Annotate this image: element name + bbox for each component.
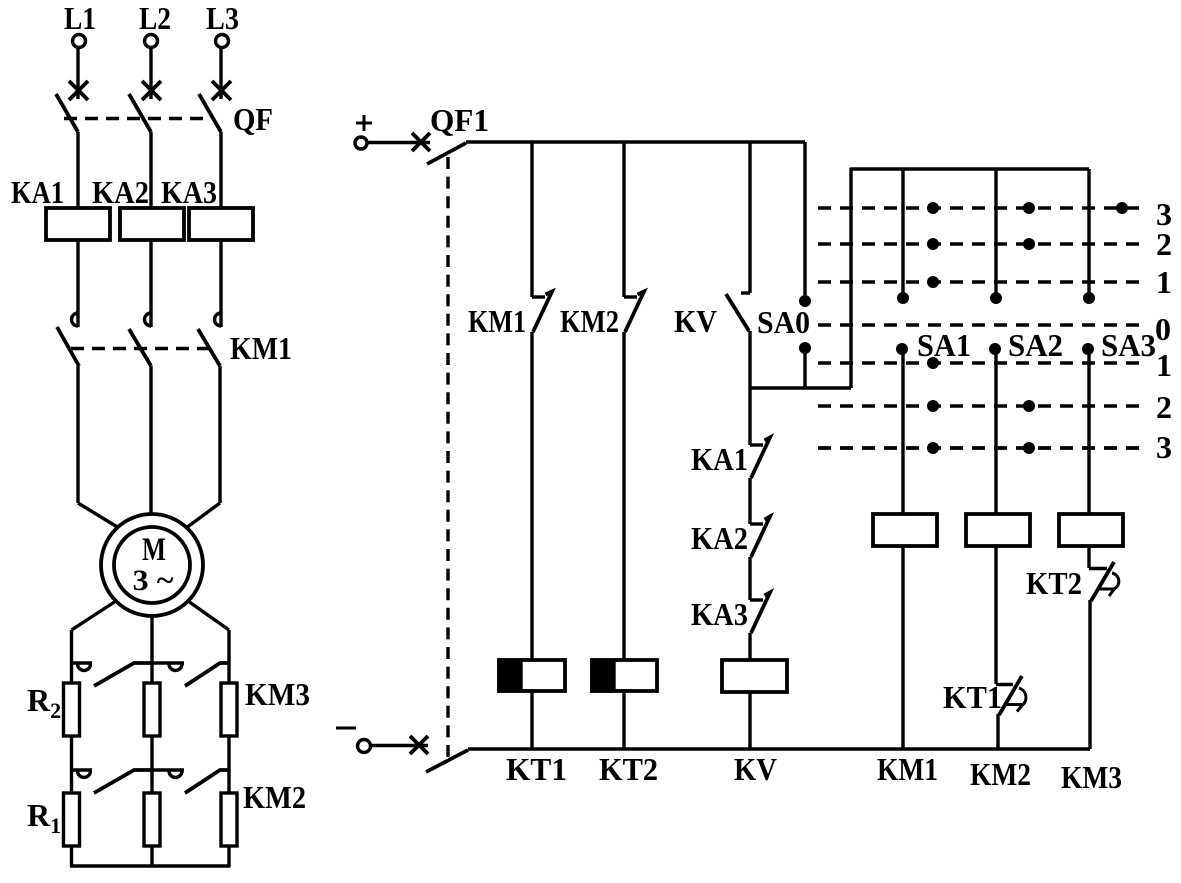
wire KA1 to KM1 contact (76, 240, 79, 327)
contact KM1 label (230, 330, 292, 366)
node L3 label (206, 0, 239, 36)
contact KA3 NC seat (750, 598, 763, 601)
contact KT2 NC seat (1089, 567, 1107, 570)
svg-text:KM3: KM3 (245, 676, 310, 712)
relay coil KA2 label (92, 174, 149, 210)
coil KT2 label (599, 751, 658, 787)
terminal plus (355, 137, 367, 149)
wire SA bus riser (849, 168, 852, 389)
svg-text:2: 2 (1156, 389, 1172, 425)
selector row 3 lower dashed (818, 446, 1140, 450)
selector row 0 dashed (818, 323, 1140, 326)
svg-text:0: 0 (1155, 311, 1171, 347)
contact KM3 b fixed hook (153, 663, 185, 671)
resistor R1 phase b (144, 793, 160, 846)
contact KM3 a fixed hook (72, 663, 93, 671)
contact KM2 a fixed hook (72, 770, 93, 778)
wire KT1 coil to bus (530, 691, 533, 749)
contact KM2 NC seat (624, 295, 637, 298)
svg-text:SA1: SA1 (917, 327, 971, 363)
coil KV (722, 660, 787, 692)
contact KM3 label (245, 676, 310, 712)
svg-text:KA3: KA3 (691, 596, 748, 632)
breaker cross L3 (212, 81, 231, 100)
wire R2a to R1a (70, 736, 73, 793)
breaker cross L1 (69, 81, 88, 100)
breaker QF linkage dashed (64, 117, 210, 120)
contact KM2 a blade (94, 770, 153, 793)
wire R1c to bus (227, 846, 230, 866)
wire L2 drop (149, 48, 152, 99)
wire KM2 branch upper (622, 142, 625, 297)
switch SA1 upper wire (901, 169, 904, 293)
contact KM1 NC seat (532, 295, 545, 298)
switch SA3 lower dot (1082, 343, 1094, 355)
coil KM2 (966, 514, 1030, 546)
wire R2b to R1b (150, 736, 153, 793)
svg-text:KA1: KA1 (11, 174, 64, 210)
wire L2 to KA2 (149, 132, 152, 208)
contact KM1 linkage dashed (71, 347, 210, 350)
resistor R2 phase c (221, 683, 237, 736)
svg-text:KT1: KT1 (943, 679, 1002, 715)
contact KM2 b fixed hook (153, 770, 185, 778)
node row label 1 lower (1156, 347, 1172, 383)
selector row 2 upper dashed (818, 242, 1140, 245)
node row label 2 lower (1156, 389, 1172, 425)
switch SA1 lower dot (896, 343, 908, 355)
wire KA2 to KM1 contact (149, 240, 152, 327)
wire L3 drop (219, 48, 222, 99)
breaker cross L2 (142, 81, 161, 100)
svg-text:QF: QF (233, 101, 273, 137)
wire rotor lead mid (150, 616, 153, 683)
wire rotor lead right (188, 601, 229, 630)
motor 3~ label (133, 564, 174, 597)
wire motor lead left (78, 503, 119, 528)
switch SA3 contact dot (1116, 202, 1128, 214)
terminal L1 (73, 35, 86, 48)
breaker QF pole 2 blade (129, 94, 151, 132)
node L2 label (139, 0, 171, 36)
switch SA0 lower wire (803, 348, 806, 388)
wire bottom rail (468, 747, 1090, 750)
svg-text:SA3: SA3 (1101, 327, 1156, 363)
wire L3 to KA3 (219, 132, 222, 208)
svg-text:R1: R1 (27, 797, 61, 838)
svg-text:KT2: KT2 (599, 751, 658, 787)
contact KM1 pole1 blade (57, 327, 79, 366)
breaker QF1 linkage dashed (446, 157, 449, 757)
wire KM1 branch to KT1 coil (530, 332, 533, 660)
svg-text:3 ~: 3 ~ (133, 564, 174, 597)
wire SA1 to KM1 coil (901, 349, 904, 514)
svg-text:L1: L1 (64, 0, 96, 36)
svg-text:KT1: KT1 (506, 751, 567, 787)
wire L1 drop (76, 48, 79, 99)
contact KM1 pole1 fixed hook (72, 313, 79, 326)
resistor R2 phase b (144, 683, 160, 736)
breaker QF label (233, 101, 273, 137)
wire KT2 contact to bus (1088, 600, 1091, 749)
svg-text:R2: R2 (27, 682, 61, 723)
svg-text:3: 3 (1156, 429, 1172, 465)
contact KA1 NC seat (750, 443, 763, 446)
breaker cross QF1 bottom (410, 736, 428, 754)
switch SA2 upper dot (990, 292, 1002, 304)
motor M inner circle (114, 527, 190, 603)
relay coil KA1 (46, 208, 110, 240)
wire L1 to KA1 (76, 132, 79, 208)
switch SA2 label (1008, 327, 1063, 363)
relay coil KA3 (189, 208, 253, 240)
switch SA0 label (757, 304, 810, 340)
resistor R1 phase c (221, 793, 237, 846)
motor M outer circle (101, 514, 203, 616)
node row label 3 lower (1156, 429, 1172, 465)
relay coil KA3 label (161, 174, 217, 210)
node row label 1 upper (1156, 264, 1172, 300)
wire KM2 coil to KT1 contact (994, 546, 997, 684)
contact KM1 pole3 fixed hook (215, 313, 222, 326)
svg-text:KV: KV (674, 303, 717, 339)
terminal minus (358, 740, 371, 753)
coil KM1 (873, 514, 937, 546)
node row label 2 upper (1156, 226, 1172, 262)
contact KT1 NC seat (996, 683, 1013, 686)
svg-text:M: M (142, 532, 166, 568)
contact KV label (674, 303, 717, 339)
coil KT2 black segment (592, 660, 614, 691)
contact KM1 pole3 blade (198, 329, 220, 366)
wire SA top bus (851, 167, 1089, 170)
wire R2c to R1c (227, 736, 230, 793)
coil KM1 label (877, 751, 938, 787)
contact KA2 label (691, 520, 748, 556)
contact KV blade (726, 294, 749, 331)
contact KT2 delay cup (1098, 573, 1119, 596)
wire plus to QF1 (367, 141, 430, 144)
selector row 2 lower dashed (818, 404, 1140, 407)
svg-text:KM1: KM1 (468, 303, 526, 339)
switch SA0 upper dot (799, 295, 811, 307)
motor M label (142, 532, 166, 568)
svg-text:KV: KV (734, 751, 777, 787)
coil KT1 (499, 660, 565, 691)
contact KT2 NC blade (1091, 562, 1114, 601)
svg-text:KM1: KM1 (230, 330, 292, 366)
wire KT1 contact to bus (996, 714, 999, 749)
wire KA2 to KA3 (748, 557, 751, 600)
switch SA0 upper wire (803, 142, 806, 295)
switch SA2 lower dot (989, 343, 1001, 355)
breaker QF1 label (430, 102, 489, 138)
wire R1b to bus (150, 846, 153, 866)
selector row 3 upper dashed (818, 206, 1140, 209)
coil KM3 (1059, 514, 1123, 546)
contact KA3 NC blade (751, 593, 770, 634)
relay coil KA2 (120, 208, 184, 240)
selector row 1 upper dashed (818, 280, 1140, 283)
svg-text:KT2: KT2 (1026, 565, 1082, 601)
svg-text:1: 1 (1156, 264, 1172, 300)
resistor R2 phase a (64, 683, 80, 736)
wire rotor bottom bus (70, 864, 231, 867)
svg-text:SA2: SA2 (1008, 327, 1063, 363)
contact KM3 a blade (94, 663, 153, 686)
wire pole2 to motor (149, 366, 152, 514)
contact KM2 NC blade (625, 292, 644, 333)
contact KM1 NC label (468, 303, 526, 339)
switch SA2 contact dots (1023, 202, 1035, 454)
svg-text:KM3: KM3 (1061, 759, 1122, 795)
contact KA1 NC blade (751, 438, 770, 479)
breaker QF1 blade bottom (426, 750, 468, 772)
wire KT2 coil to bus (622, 691, 625, 749)
wire KV coil to bus (748, 692, 751, 749)
contact KA2 NC seat (750, 522, 763, 525)
svg-text:2: 2 (1156, 226, 1172, 262)
wire KM1 coil to bus (901, 546, 904, 749)
coil KT1 black segment (499, 660, 521, 691)
wire motor lead right (186, 503, 220, 528)
contact KM3 b blade (185, 663, 229, 686)
coil KT1 label (506, 751, 567, 787)
switch SA3 upper wire (1087, 169, 1090, 293)
svg-text:QF1: QF1 (430, 102, 489, 138)
breaker QF1 blade top (427, 143, 466, 164)
svg-text:L2: L2 (139, 0, 171, 36)
contact KA2 NC blade (751, 517, 770, 558)
wire SA0 to SA bus riser (750, 386, 851, 389)
wire KM1 branch upper (530, 142, 533, 297)
node row label 0 (1155, 311, 1171, 347)
node row label 3 upper (1156, 196, 1172, 232)
contact KM2 label (243, 779, 306, 815)
coil KM3 label (1061, 759, 1122, 795)
contact KM2 b blade (185, 770, 229, 793)
contact KV hook (741, 291, 750, 294)
wire KV branch mid (748, 331, 751, 445)
wire SA3 to KM3 coil (1087, 349, 1090, 514)
breaker QF pole 3 blade (199, 94, 221, 132)
svg-text:KM2: KM2 (970, 756, 1031, 792)
wire R1a to bus (70, 846, 73, 866)
contact KT1 label (943, 679, 1002, 715)
coil KV label (734, 751, 777, 787)
coil KM2 label (970, 756, 1031, 792)
selector row 1 lower dashed (818, 361, 1140, 364)
wire pole3 to motor (218, 366, 221, 503)
wire KM2 branch to KT2 coil (622, 332, 625, 660)
svg-text:SA0: SA0 (757, 304, 810, 340)
resistor R1 phase a (64, 793, 80, 846)
wire minus to QF1 bottom (370, 744, 428, 747)
coil KT2 (592, 660, 657, 691)
wire pole1 to motor (76, 366, 79, 503)
contact KM1 pole2 blade (129, 329, 151, 366)
wire SA2 to KM2 coil (994, 349, 997, 514)
svg-text:KA2: KA2 (691, 520, 748, 556)
node L1 label (64, 0, 96, 36)
wire KA3 to KM1 contact (219, 240, 222, 327)
svg-text:1: 1 (1156, 347, 1172, 383)
wire rotor col C upper (227, 630, 230, 683)
breaker QF pole 1 blade (56, 94, 78, 132)
contact KT2 label (1026, 565, 1082, 601)
wire KA3 to KV coil (748, 633, 751, 660)
svg-text:L3: L3 (206, 0, 239, 36)
svg-text:KM2: KM2 (243, 779, 306, 815)
switch SA3 upper dot (1083, 292, 1095, 304)
resistor R2 label (27, 682, 61, 723)
svg-text:KA3: KA3 (161, 174, 217, 210)
switch SA1 label (917, 327, 971, 363)
svg-text:KM1: KM1 (877, 751, 938, 787)
wire top rail (466, 140, 805, 143)
switch SA0 lower dot (799, 342, 811, 354)
contact KA1 label (691, 441, 748, 477)
switch SA1 contact dots (927, 202, 939, 454)
switch SA3 label (1101, 327, 1156, 363)
contact KM1 pole2 fixed hook (145, 313, 152, 326)
contact KA3 label (691, 596, 748, 632)
wire rotor col A upper (70, 630, 73, 683)
resistor R1 label (27, 797, 61, 838)
wire KM3 coil to KT2 contact (1087, 546, 1090, 568)
contact KT1 delay cup (1006, 688, 1026, 712)
switch SA1 upper dot (897, 292, 909, 304)
contact KM1 NC blade (533, 292, 552, 333)
terminal L2 (145, 35, 158, 48)
node minus terminal label (336, 727, 356, 730)
node plus terminal label (356, 115, 372, 131)
svg-text:KM2: KM2 (560, 303, 619, 339)
contact KM2 NC label (560, 303, 619, 339)
wire KV branch upper (748, 142, 751, 293)
wire KA1 to KA2 (748, 478, 751, 524)
contact KT1 NC blade (999, 676, 1022, 715)
relay coil KA1 label (11, 174, 64, 210)
breaker cross QF1 top (412, 133, 430, 151)
switch SA2 upper wire (994, 169, 997, 293)
terminal L3 (216, 35, 229, 48)
svg-text:KA2: KA2 (92, 174, 149, 210)
wire rotor lead left (72, 601, 117, 630)
svg-text:KA1: KA1 (691, 441, 748, 477)
